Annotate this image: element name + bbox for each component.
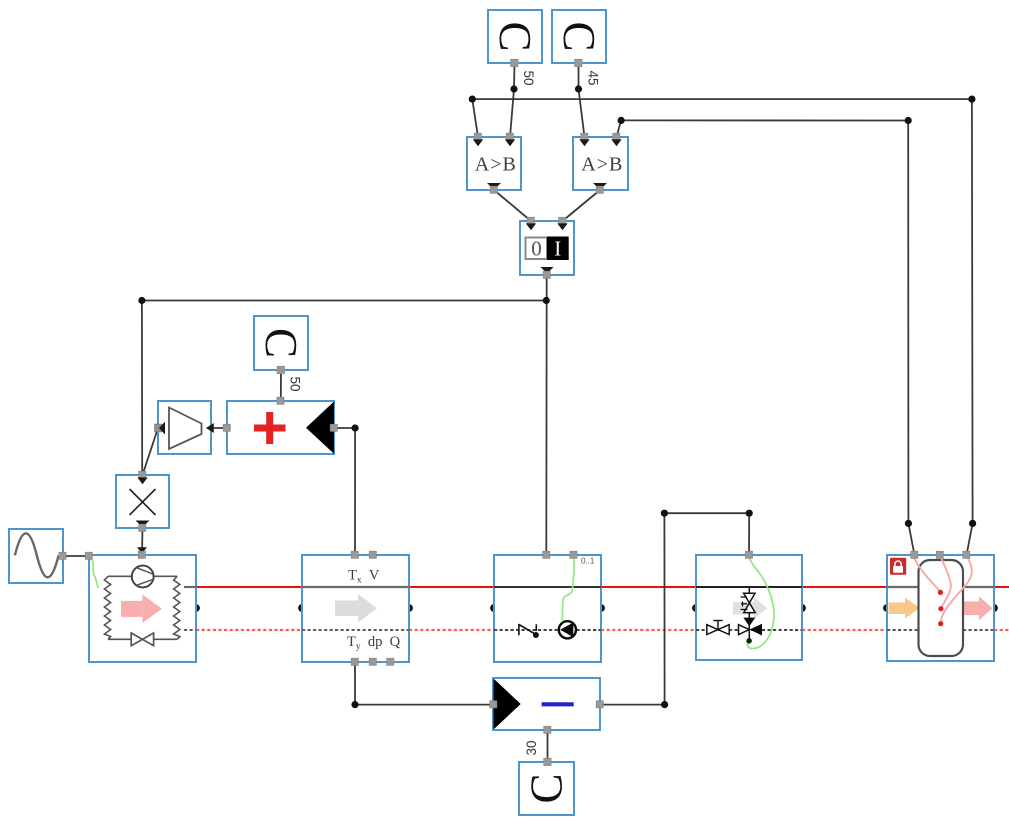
wire adder to pipe sensor top [334, 428, 355, 555]
wire const45 to comparator2 [579, 63, 585, 137]
tank sensor curves [914, 558, 971, 623]
svg-text:30: 30 [524, 740, 539, 755]
pump green signal [562, 558, 574, 621]
valve green signal loop [747, 558, 774, 648]
valve three-way triangles [739, 625, 750, 635]
heat pump refrigerant loop [104, 576, 179, 639]
pump block [494, 551, 601, 662]
svg-text:50: 50 [521, 70, 536, 85]
wire comparator2 to flipflop [563, 190, 601, 221]
constant block 50 top [488, 10, 542, 67]
wire const50top to comparator1 [510, 63, 515, 137]
valve supply line [696, 586, 802, 588]
wire adder to gain [208, 427, 227, 429]
wire const50mid to adder [280, 370, 282, 401]
tank return stubs dashed [887, 629, 918, 631]
arrowhead into heat pump port [137, 547, 147, 553]
svg-text:A>B: A>B [475, 154, 517, 176]
adder block [223, 397, 337, 454]
return line red dashed segments [196, 629, 1009, 631]
svg-text:C: C [522, 773, 572, 803]
constant block 30 bottom [519, 758, 574, 815]
svg-text:A>B: A>B [581, 154, 623, 176]
tank orange arrow [889, 598, 921, 619]
sine source block [9, 529, 66, 583]
wire flipflop to pump block [545, 275, 547, 555]
svg-text:0: 0 [531, 237, 542, 261]
valve bypass vertical line [748, 587, 750, 641]
pump switch symbol [519, 624, 536, 635]
pipe sensor return dashed [302, 629, 409, 631]
valve port [745, 551, 752, 558]
wire tank upper bus y120 [617, 120, 915, 555]
wire subtract to const30 [547, 730, 549, 762]
wire subtract output to valve block [600, 513, 749, 704]
tank supply stubs [887, 586, 924, 588]
valve spring marks [741, 597, 748, 610]
heat pump block [85, 551, 196, 662]
constant block 45 top [552, 10, 606, 67]
tank ports [911, 551, 918, 558]
wire sine to heatpump [62, 555, 89, 557]
subtract block [490, 678, 604, 733]
valve filled triangle down [743, 618, 755, 627]
input arrowheads [137, 139, 621, 484]
wire pipe sensor bottom to subtract [355, 662, 494, 705]
comparator A>B 1 [467, 133, 521, 193]
heat pump pipe stubs [184, 586, 196, 588]
svg-text:C: C [554, 21, 604, 51]
pipe sensor block [302, 551, 409, 665]
tank lock icon [890, 558, 906, 575]
wire gain to multiplier [143, 428, 159, 475]
svg-text:Tx V: Tx V [348, 568, 380, 586]
gain block [155, 401, 211, 454]
pipe sensor gray arrow [335, 594, 377, 623]
pump return dashed [494, 629, 601, 631]
tank pink arrow [963, 596, 993, 620]
svg-text:C: C [256, 328, 306, 358]
svg-text:45: 45 [586, 70, 601, 85]
valve block [696, 551, 802, 660]
wire tank upper bus y99 [472, 99, 972, 555]
svg-text:C: C [490, 21, 540, 51]
svg-text:50: 50 [288, 376, 303, 391]
heat pump expansion valve [131, 633, 153, 646]
valve hourglass valve [744, 593, 756, 612]
heat pump pink arrow [121, 594, 162, 623]
heat pump green signal [90, 558, 99, 588]
heat pump ports [138, 551, 145, 558]
svg-text:Ty dp Q: Ty dp Q [347, 634, 401, 652]
heat pump compressor [132, 566, 154, 588]
wire comparator1 to flipflop [494, 190, 531, 221]
pump supply line [494, 586, 601, 588]
pipe sensor ports [351, 551, 358, 558]
comparator A>B 2 [573, 133, 628, 193]
storage tank block [887, 551, 994, 661]
pump ports [543, 551, 550, 558]
valve gray arrow [733, 597, 767, 619]
constant block 50 mid [254, 316, 308, 374]
pump circle [559, 621, 576, 638]
tank vessel [919, 560, 964, 656]
pipe sensor supply line [302, 586, 409, 588]
supply line red segments [196, 586, 1009, 588]
svg-text:I: I [554, 237, 561, 261]
valve manual valve [707, 625, 729, 635]
valve return dashed [696, 629, 802, 631]
wire branch y300 to multiplier [142, 301, 546, 476]
flip-flop 0/1 block [520, 217, 574, 278]
multiplier block [116, 471, 169, 531]
wire multiplier to heatpump [141, 528, 144, 555]
svg-text:0..1: 0..1 [581, 557, 595, 566]
